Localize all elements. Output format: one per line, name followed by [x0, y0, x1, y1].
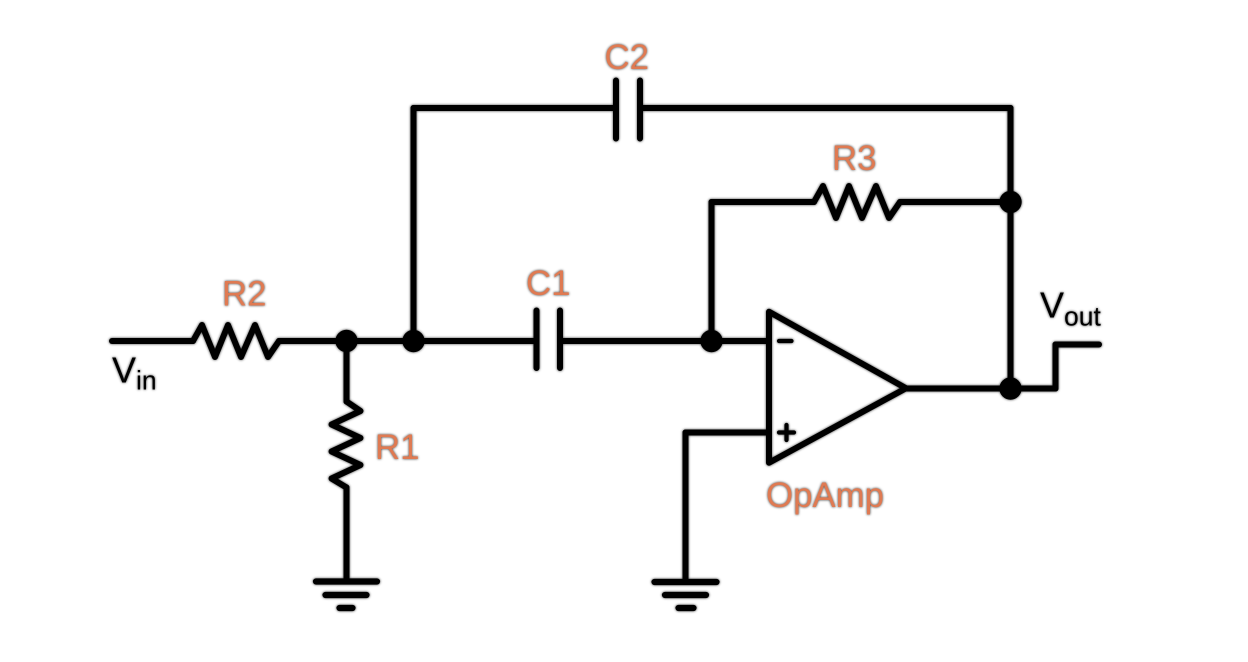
ground (below R1) [316, 582, 377, 609]
node C (inverting input junction) [700, 330, 722, 352]
wire C2 top right segment [643, 105, 1011, 111]
resistor R1 [332, 402, 361, 488]
wire Vin lead [112, 338, 193, 344]
node A (input / R1 junction) [335, 330, 357, 352]
svg-text:R2: R2 [222, 275, 266, 314]
capacitor C1 [537, 311, 561, 369]
wire C1 right plate to op-amp inverting input [563, 338, 768, 344]
wire R1 to ground [344, 488, 350, 580]
wire C2 top left segment [414, 105, 615, 111]
capacitor C2 [616, 81, 640, 139]
node E (output junction) [999, 377, 1021, 399]
op-amp inverting pin label - [779, 339, 792, 343]
svg-text:Vin: Vin [112, 350, 157, 396]
resistor R2 [193, 325, 279, 357]
node B (C2 riser junction) [402, 330, 424, 352]
svg-text:OpAmp: OpAmp [766, 476, 884, 515]
wire R1 drop from input node [344, 341, 350, 402]
svg-text:C1: C1 [526, 264, 570, 303]
wire riser from inverting node to R3 [709, 202, 715, 341]
wire op-amp output [906, 386, 1056, 392]
wire non-inverting input lead [686, 430, 769, 436]
wire riser from node to C2 loop [411, 108, 417, 341]
wire output step up [1053, 345, 1059, 389]
svg-text:C2: C2 [605, 38, 649, 77]
wire non-inverting input to ground [683, 433, 689, 580]
wire right vertical bus (C2/R3/output) [1008, 108, 1014, 389]
wire R2 to C1 left plate [279, 338, 535, 344]
wire Vout terminal [1056, 342, 1100, 348]
svg-text:R1: R1 [375, 428, 419, 467]
op-amp non-inverting pin label + [779, 425, 794, 440]
ground (non-inverting input) [655, 582, 717, 608]
resistor R3 [814, 186, 900, 218]
op-amp U1 [769, 312, 906, 463]
svg-text:Vout: Vout [1040, 285, 1101, 332]
wire R3 left lead [712, 199, 815, 205]
svg-text:R3: R3 [832, 139, 876, 178]
wire R3 right lead [900, 199, 1011, 205]
node D (R3 / right bus junction) [999, 191, 1021, 213]
